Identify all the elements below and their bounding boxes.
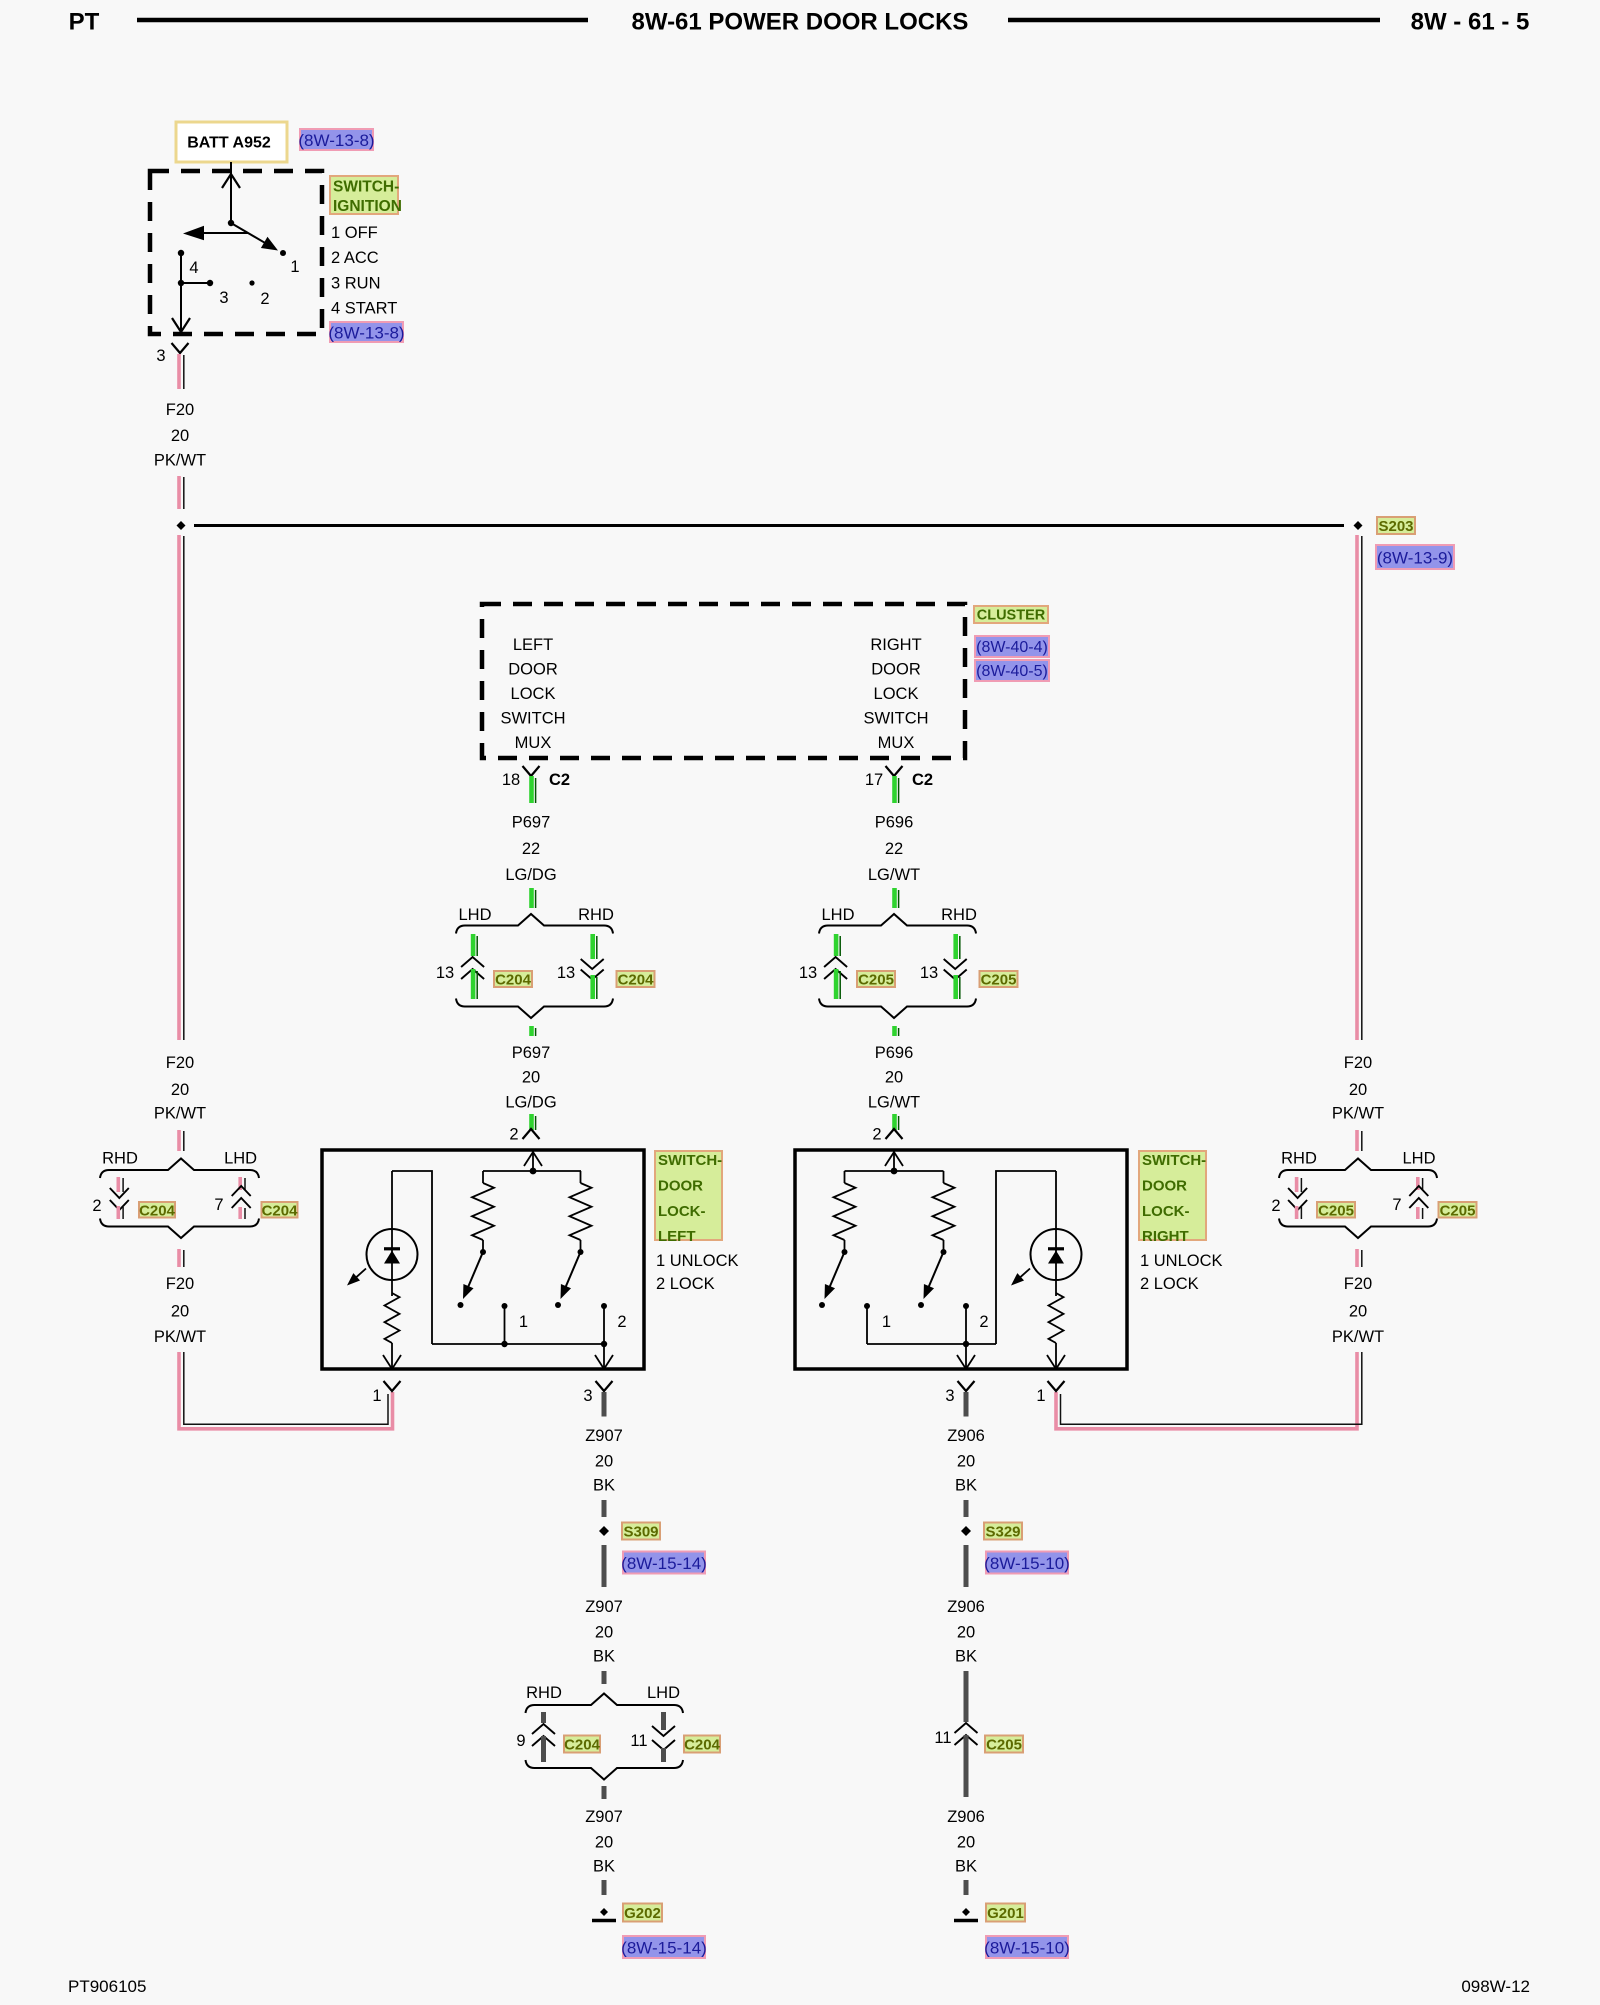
connector label C204 d	[262, 1202, 298, 1218]
svg-text:2: 2	[1271, 1197, 1280, 1215]
svg-text:BK: BK	[955, 1858, 977, 1876]
wire Z906 segment 1	[964, 1392, 969, 1417]
ground label G201	[986, 1904, 1025, 1922]
svg-text:2: 2	[872, 1126, 881, 1144]
left box pin1 exit arrow	[383, 1355, 401, 1369]
svg-text:SWITCH: SWITCH	[863, 710, 928, 728]
svg-text:S203: S203	[1378, 518, 1413, 535]
branch bracket top right	[819, 914, 976, 934]
left box terminal 2 node	[601, 1341, 607, 1347]
right box pin1 exit arrow	[1047, 1355, 1065, 1369]
svg-text:PK/WT: PK/WT	[154, 1105, 206, 1123]
svg-text:RHD: RHD	[526, 1684, 562, 1702]
svg-text:20: 20	[957, 1834, 975, 1852]
svg-text:SWITCH: SWITCH	[500, 710, 565, 728]
wire P696 LHD branch lower	[834, 969, 839, 999]
wire F20 LHD branch lower r	[1416, 1207, 1420, 1219]
wire Z906 segment 2	[964, 1500, 969, 1517]
svg-text:1 OFF: 1 OFF	[331, 224, 378, 242]
right box pin2 entry wire	[893, 1150, 895, 1171]
bus wire F20 horizontal	[194, 524, 1344, 527]
svg-text:RIGHT: RIGHT	[870, 636, 921, 654]
svg-text:Z907: Z907	[585, 1427, 623, 1445]
switch-door-lock-right box	[795, 1150, 1127, 1369]
svg-text:SWITCH-: SWITCH-	[658, 1152, 722, 1169]
ground G201 node	[962, 1908, 970, 1916]
svg-text:S329: S329	[985, 1524, 1020, 1541]
wire P697 segment 3	[529, 1114, 534, 1130]
ground label G202	[623, 1904, 662, 1922]
split bracket top Z907	[526, 1694, 684, 1714]
splice label S329	[984, 1523, 1022, 1540]
svg-text:20: 20	[595, 1834, 613, 1852]
svg-text:LG/DG: LG/DG	[505, 866, 556, 884]
ignition rotor wire	[230, 176, 232, 223]
branch bracket bottom right	[819, 999, 976, 1019]
left box terminal 1 node	[501, 1341, 507, 1347]
right box pivot node 1	[842, 1249, 848, 1255]
LED lamp circle right	[1031, 1229, 1082, 1280]
svg-text:1 UNLOCK: 1 UNLOCK	[1140, 1252, 1223, 1270]
wire to position 3	[181, 282, 210, 284]
svg-text:LHD: LHD	[1402, 1150, 1435, 1168]
svg-text:G201: G201	[987, 1905, 1024, 1922]
right box terminal 2 wire	[965, 1306, 967, 1344]
reference label (8W-15-10) a	[986, 1552, 1068, 1574]
left box terminal 2 wire	[603, 1306, 605, 1344]
left box pin3 connector	[596, 1381, 613, 1391]
svg-text:F20: F20	[166, 1054, 194, 1072]
svg-text:2: 2	[260, 290, 269, 308]
component label CLUSTER	[974, 606, 1048, 623]
LED diode right	[1048, 1247, 1064, 1250]
left box pin1 connector	[384, 1381, 401, 1391]
splice node left	[177, 521, 186, 530]
left box switch arm 2	[565, 1252, 580, 1288]
wire Z907 RHD branch lower	[541, 1736, 546, 1762]
svg-text:Z906: Z906	[947, 1598, 985, 1616]
wire F20 RHD branch lower r	[1295, 1206, 1299, 1219]
svg-text:MUX: MUX	[515, 734, 552, 752]
left box resistor 1	[482, 1171, 484, 1183]
wire F20 LHD branch lower	[238, 1207, 242, 1219]
svg-text:BK: BK	[955, 1648, 977, 1666]
split bracket top F20 right	[1279, 1159, 1437, 1179]
svg-text:LOCK: LOCK	[511, 685, 556, 703]
switch pin 2 connector right	[886, 1129, 903, 1139]
split bracket bottom Z907	[526, 1760, 684, 1780]
svg-text:CLUSTER: CLUSTER	[977, 608, 1046, 624]
connector label C205 a	[857, 971, 895, 987]
reference label (8W-13-8) top	[300, 129, 373, 150]
right box pin2 entry arrow	[885, 1152, 903, 1166]
svg-text:3: 3	[219, 289, 228, 307]
wire Z906 segment 5	[964, 1735, 969, 1797]
ignition wiper arrow left	[204, 232, 249, 234]
wire P696 RHD branch lower	[953, 975, 958, 999]
wire F20 RHD branch upper r	[1295, 1177, 1299, 1192]
svg-text:22: 22	[885, 840, 903, 858]
split bracket bottom F20 left	[100, 1219, 259, 1239]
switch-ignition dashed box	[150, 171, 322, 334]
connector chevrons C205 down pink	[1288, 1188, 1307, 1198]
wire F20 stub above bracket left	[177, 1130, 181, 1151]
wire Z907 segment 5	[602, 1786, 607, 1799]
svg-text:20: 20	[595, 1453, 613, 1471]
wire P696 segment 3	[892, 1114, 897, 1130]
left box terminal 1 wire	[504, 1306, 506, 1344]
ground G201 bar	[954, 1919, 978, 1923]
svg-text:BK: BK	[593, 1477, 615, 1495]
svg-text:20: 20	[522, 1069, 540, 1087]
component label switch-ignition	[330, 176, 398, 214]
svg-text:1: 1	[882, 1313, 891, 1331]
svg-text:3 RUN: 3 RUN	[331, 275, 381, 293]
svg-text:C205: C205	[858, 972, 894, 989]
svg-text:2: 2	[509, 1126, 518, 1144]
reference label (8W-13-8) bottom	[330, 322, 403, 342]
position 1 contact	[280, 250, 286, 256]
svg-text:20: 20	[957, 1453, 975, 1471]
left box arm contact 1	[458, 1302, 464, 1308]
wire P696 RHD branch upper	[590, 934, 595, 959]
svg-text:BK: BK	[593, 1648, 615, 1666]
svg-text:20: 20	[1349, 1081, 1367, 1099]
left box switch arm 1	[468, 1252, 483, 1288]
svg-text:F20: F20	[1344, 1275, 1372, 1293]
wire F20 elbow to right switch pin 1	[1056, 1352, 1357, 1429]
svg-text:1: 1	[519, 1313, 528, 1331]
svg-text:(8W-13-8): (8W-13-8)	[298, 131, 374, 150]
wire F20 LHD branch upper	[238, 1177, 242, 1190]
svg-text:DOOR: DOOR	[871, 661, 921, 679]
wire P696 segment 2	[892, 888, 897, 908]
svg-text:DOOR: DOOR	[658, 1177, 703, 1194]
svg-text:RHD: RHD	[1281, 1150, 1317, 1168]
wire P696 segment 1	[892, 776, 897, 803]
svg-text:Z907: Z907	[585, 1598, 623, 1616]
right box pin3 exit arrow	[957, 1355, 975, 1369]
right box terminal 1 contact	[864, 1303, 870, 1309]
connector chevrons C204 down	[581, 959, 604, 969]
svg-text:(8W-15-10): (8W-15-10)	[984, 1554, 1070, 1573]
right box top rail	[845, 1170, 944, 1172]
left box hook wire	[392, 1171, 432, 1344]
svg-text:(8W-13-8): (8W-13-8)	[328, 324, 404, 343]
right box terminal 2 node	[963, 1341, 969, 1347]
svg-text:20: 20	[885, 1069, 903, 1087]
wire F20 LHD branch upper r	[1416, 1177, 1420, 1190]
svg-text:8W-61 POWER DOOR LOCKS: 8W-61 POWER DOOR LOCKS	[632, 9, 969, 36]
svg-text:PT906105: PT906105	[68, 1977, 146, 1996]
svg-text:IGNITION: IGNITION	[333, 198, 402, 215]
right box resistor 1	[844, 1171, 846, 1183]
wire Z907 segment 6	[602, 1880, 607, 1895]
branch bracket top left	[456, 914, 613, 934]
LED lamp circle left	[367, 1229, 418, 1280]
svg-text:7: 7	[214, 1196, 223, 1214]
left box pivot node 1	[480, 1249, 486, 1255]
splice node S309	[599, 1526, 609, 1536]
svg-text:18: 18	[502, 771, 520, 789]
svg-text:9: 9	[516, 1732, 525, 1750]
right box pin3 exit wire	[965, 1344, 967, 1367]
svg-text:20: 20	[595, 1624, 613, 1642]
right box bottom rail	[867, 1343, 996, 1345]
wire Z906 segment 3	[964, 1545, 969, 1587]
position 4 contact	[178, 250, 184, 256]
left box resistor 2	[580, 1171, 582, 1183]
svg-text:PT: PT	[69, 9, 100, 36]
svg-text:Z907: Z907	[585, 1808, 623, 1826]
wire Z907 LHD branch lower	[661, 1748, 666, 1762]
right box switch arm 1	[829, 1252, 844, 1288]
right box switch arm 2	[928, 1252, 943, 1288]
svg-text:13: 13	[557, 964, 575, 982]
svg-text:BATT A952: BATT A952	[187, 135, 271, 152]
svg-text:LHD: LHD	[224, 1150, 257, 1168]
svg-text:C2: C2	[549, 771, 570, 789]
left box pin3 exit wire	[603, 1344, 605, 1367]
svg-text:20: 20	[171, 427, 189, 445]
switch pin 2 connector left	[523, 1129, 540, 1139]
connector chevrons C204 down pink	[110, 1188, 129, 1198]
left box top rail	[483, 1170, 581, 1172]
cluster pin 18 connector	[523, 766, 540, 776]
svg-text:1: 1	[372, 1387, 381, 1405]
reference label (8W-40-5)	[975, 660, 1049, 681]
svg-text:2 LOCK: 2 LOCK	[1140, 1275, 1199, 1293]
svg-text:BK: BK	[593, 1858, 615, 1876]
wire F20 stub below bracket left	[177, 1249, 181, 1267]
connector chevrons C205 up bk	[955, 1723, 978, 1733]
svg-text:2: 2	[92, 1197, 101, 1215]
wire P697 RHD branch lower	[590, 975, 595, 999]
wire F20 stub above bracket right	[1355, 1130, 1359, 1151]
svg-text:C204: C204	[262, 1202, 299, 1219]
svg-text:Z906: Z906	[947, 1427, 985, 1445]
svg-text:PK/WT: PK/WT	[1332, 1105, 1384, 1123]
left box lamp feed wire	[391, 1171, 393, 1296]
wire Z907 segment 2	[602, 1500, 607, 1517]
connector label C205 b	[980, 971, 1018, 987]
svg-text:2 LOCK: 2 LOCK	[656, 1275, 715, 1293]
wire F20 segment 1	[177, 354, 181, 389]
left box bottom rail	[432, 1343, 604, 1345]
svg-text:1: 1	[290, 258, 299, 276]
svg-text:P697: P697	[512, 1044, 551, 1062]
svg-text:F20: F20	[1344, 1054, 1372, 1072]
svg-text:Z906: Z906	[947, 1808, 985, 1826]
right box lamp resistor	[1049, 1293, 1064, 1343]
svg-text:BK: BK	[955, 1477, 977, 1495]
svg-text:DOOR: DOOR	[508, 661, 558, 679]
wire P697 LHD branch upper	[471, 934, 476, 956]
wire Z907 LHD branch upper	[661, 1712, 666, 1730]
svg-text:F20: F20	[166, 1275, 194, 1293]
svg-text:(8W-40-5): (8W-40-5)	[976, 663, 1048, 680]
svg-text:13: 13	[436, 964, 454, 982]
svg-text:G202: G202	[624, 1905, 661, 1922]
svg-text:3: 3	[945, 1387, 954, 1405]
svg-text:1 UNLOCK: 1 UNLOCK	[656, 1252, 739, 1270]
svg-text:LHD: LHD	[647, 1684, 680, 1702]
right box hook wire	[996, 1171, 1056, 1344]
svg-text:22: 22	[522, 840, 540, 858]
right box arm contact 2	[918, 1302, 924, 1308]
left box terminal 1 contact	[502, 1303, 508, 1309]
left box pin3 exit arrow	[595, 1355, 613, 1369]
svg-text:C204: C204	[564, 1737, 601, 1754]
left box terminal 2 contact	[601, 1303, 607, 1309]
header rule right	[1008, 18, 1380, 23]
svg-text:SWITCH-: SWITCH-	[1142, 1152, 1206, 1169]
svg-text:P697: P697	[512, 814, 551, 832]
svg-text:3: 3	[156, 347, 165, 365]
svg-text:11: 11	[630, 1732, 647, 1750]
reference label (8W-15-14) a	[623, 1552, 705, 1574]
svg-text:MUX: MUX	[878, 734, 915, 752]
svg-text:C204: C204	[618, 972, 655, 989]
header rule left	[137, 18, 588, 23]
component label switch-door-lock-right	[1139, 1151, 1206, 1240]
connector chevrons C205 up pink	[1409, 1186, 1428, 1196]
wire P696 RHD branch upper	[953, 934, 958, 959]
cluster pin 17 connector	[886, 766, 903, 776]
reference label (8W-13-9)	[1376, 545, 1454, 569]
svg-text:LHD: LHD	[458, 906, 491, 924]
wire F20 segment 2	[177, 476, 181, 509]
splice label S309	[622, 1523, 660, 1540]
svg-text:PK/WT: PK/WT	[154, 452, 206, 470]
ground G202 bar	[592, 1919, 616, 1923]
svg-text:C205: C205	[986, 1737, 1022, 1754]
right box pin3 connector	[958, 1381, 975, 1391]
svg-text:LEFT: LEFT	[658, 1228, 696, 1245]
svg-text:7: 7	[1392, 1196, 1401, 1214]
svg-text:20: 20	[957, 1624, 975, 1642]
wire Z906 segment 4	[964, 1671, 969, 1722]
connector chevrons C204 up	[461, 957, 484, 967]
wire F20 left long drop	[177, 535, 181, 1040]
connector chevrons C205 up	[824, 957, 847, 967]
wire Z907 segment 1	[602, 1392, 607, 1417]
svg-text:PK/WT: PK/WT	[154, 1328, 206, 1346]
svg-text:(8W-15-14): (8W-15-14)	[621, 1554, 707, 1573]
connector label C204 f	[684, 1736, 720, 1753]
splice label S203	[1377, 517, 1415, 534]
svg-text:S309: S309	[623, 1524, 658, 1541]
branch bracket bottom left	[456, 999, 613, 1019]
svg-text:4: 4	[189, 259, 198, 277]
svg-text:20: 20	[171, 1303, 189, 1321]
svg-text:PK/WT: PK/WT	[1332, 1328, 1384, 1346]
svg-text:2: 2	[979, 1313, 988, 1331]
reference label (8W-40-4)	[975, 636, 1049, 657]
reference label (8W-15-10) b	[986, 1936, 1068, 1958]
svg-text:RHD: RHD	[941, 906, 977, 924]
svg-text:RHD: RHD	[102, 1150, 138, 1168]
right box terminal 2 contact	[963, 1303, 969, 1309]
svg-text:F20: F20	[166, 401, 194, 419]
right box resistor 2	[943, 1171, 945, 1183]
wire P697 stub	[529, 1026, 534, 1036]
svg-text:17: 17	[865, 771, 883, 789]
splice node S203	[1354, 521, 1363, 530]
right box terminal 1 wire	[866, 1306, 868, 1344]
svg-text:(8W-40-4): (8W-40-4)	[976, 639, 1048, 656]
left box entry node	[530, 1168, 537, 1175]
ground G202 node	[600, 1908, 608, 1916]
splice node S329	[961, 1526, 971, 1536]
svg-text:13: 13	[799, 964, 817, 982]
left box arm contact 2	[555, 1302, 561, 1308]
svg-text:1: 1	[1036, 1387, 1045, 1405]
wire Z907 segment 3	[602, 1545, 607, 1587]
connector label C204 a	[494, 971, 532, 987]
svg-text:(8W-15-10): (8W-15-10)	[984, 1939, 1070, 1958]
svg-text:LG/WT: LG/WT	[868, 866, 920, 884]
connector chevrons C204 down bk	[652, 1726, 675, 1736]
LED light arrow left	[355, 1269, 366, 1279]
svg-text:11: 11	[934, 1729, 951, 1747]
split bracket bottom F20 right	[1279, 1219, 1437, 1239]
wire Z907 RHD branch upper	[541, 1712, 546, 1723]
wire F20 right long drop	[1355, 535, 1359, 1040]
svg-text:SWITCH-: SWITCH-	[333, 178, 399, 195]
svg-text:P696: P696	[875, 814, 914, 832]
svg-text:P696: P696	[875, 1044, 914, 1062]
svg-text:(8W-13-9): (8W-13-9)	[1377, 549, 1453, 568]
left box lamp resistor	[385, 1293, 400, 1343]
svg-text:LG/WT: LG/WT	[868, 1093, 920, 1111]
svg-text:C205: C205	[1318, 1202, 1354, 1219]
svg-text:(8W-15-14): (8W-15-14)	[621, 1939, 707, 1958]
left box pin2 entry wire	[532, 1150, 534, 1171]
ignition wiper to position 1	[231, 223, 266, 243]
right box pin1 connector	[1048, 1381, 1065, 1391]
ignition start wire	[180, 253, 182, 330]
reference label (8W-15-14) b	[623, 1936, 705, 1958]
svg-text:RHD: RHD	[578, 906, 614, 924]
ignition feed arrow up	[222, 174, 240, 188]
component label switch-door-lock-left	[655, 1151, 722, 1240]
split bracket top F20 left	[100, 1159, 259, 1179]
connector label C205 e	[985, 1736, 1023, 1753]
wire F20 stub below bracket right	[1355, 1249, 1359, 1267]
svg-text:2 ACC: 2 ACC	[331, 249, 379, 267]
cluster dashed box	[482, 604, 965, 758]
svg-text:13: 13	[920, 964, 938, 982]
LED diode left	[384, 1247, 400, 1250]
wire F20 elbow to left switch pin 1	[179, 1352, 393, 1429]
wire F20 RHD branch lower	[117, 1206, 121, 1219]
ignition junction node	[178, 280, 184, 286]
connector label C204 e	[564, 1736, 600, 1753]
connector chevrons C204 up pink	[232, 1186, 251, 1196]
left box pivot node 2	[578, 1249, 584, 1255]
position 3 contact	[207, 280, 213, 286]
wire P696 stub	[892, 1026, 897, 1036]
svg-text:DOOR: DOOR	[1142, 1177, 1187, 1194]
svg-text:C205: C205	[1440, 1202, 1476, 1219]
svg-text:8W - 61 - 5: 8W - 61 - 5	[1411, 9, 1530, 36]
wire P697 LHD branch lower	[471, 969, 476, 999]
wire P696 LHD branch upper	[834, 934, 839, 956]
svg-text:4 START: 4 START	[331, 300, 397, 318]
right box lamp feed wire	[1055, 1171, 1057, 1296]
svg-text:LOCK-: LOCK-	[658, 1203, 706, 1220]
